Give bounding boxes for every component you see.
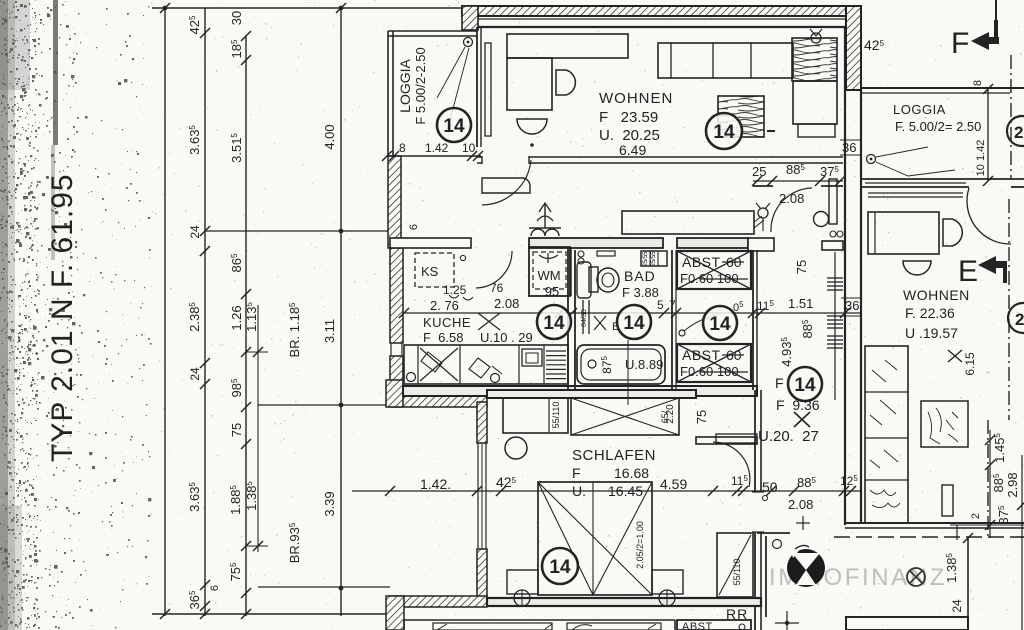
bad shelf <box>597 251 615 256</box>
wohnen1 desk <box>507 34 628 58</box>
svg-text:F: F <box>572 465 581 481</box>
svg-text:2. 76: 2. 76 <box>430 298 459 313</box>
svg-text:F. 22.36: F. 22.36 <box>905 305 955 321</box>
svg-text:3.11: 3.11 <box>322 319 337 343</box>
wohnen1 door jambs <box>482 156 529 164</box>
svg-text:25/55: 25/55 <box>643 251 649 267</box>
exterior wall bottom left (hatched) <box>390 596 487 607</box>
apartment number circle kitchen <box>537 305 571 339</box>
kitchen taps <box>407 373 416 382</box>
hall lower dim line <box>352 490 861 492</box>
stair box bottom right <box>846 617 968 630</box>
svg-text:4.00: 4.00 <box>322 124 337 149</box>
svg-text:55/110: 55/110 <box>732 559 742 586</box>
svg-text:2.20: 2.20 <box>665 404 676 424</box>
svg-text:3.39: 3.39 <box>322 491 337 516</box>
svg-text:U.10 . 29: U.10 . 29 <box>480 330 533 345</box>
svg-text:F: F <box>775 375 784 391</box>
svg-text:2: 2 <box>1014 123 1023 142</box>
door mark cross <box>796 522 810 524</box>
schlafen niche closet <box>716 434 757 443</box>
exterior wall top inner faces <box>477 18 845 20</box>
wohnen1 coffee table (wood texture) <box>718 96 764 137</box>
loggia1 parapet left <box>387 31 389 156</box>
svg-text:1.26: 1.26 <box>229 305 244 330</box>
svg-text:SCHLAFEN: SCHLAFEN <box>572 447 656 464</box>
title text TYP 2.01 N F. 61.95 (rotated) <box>46 173 79 462</box>
svg-text:5: 5 <box>657 298 664 312</box>
separating wall apt1/apt2 <box>844 90 846 525</box>
entrance dims 25 88.5 37.5 <box>753 180 843 182</box>
bad wc <box>589 267 598 292</box>
dimension chain line L3 with labels <box>245 36 247 616</box>
svg-text:ABST: ABST <box>682 254 721 270</box>
svg-text:BR. 1.185: BR. 1.185 <box>287 302 302 358</box>
svg-text:6: 6 <box>408 224 420 230</box>
svg-text:U.20. 27: U.20. 27 <box>758 428 819 445</box>
schlafen stool circle <box>505 437 527 459</box>
svg-text:TYP 2.01 N F. 61.95: TYP 2.01 N F. 61.95 <box>46 173 79 462</box>
svg-text:30: 30 <box>229 11 244 25</box>
svg-text:7: 7 <box>669 298 676 312</box>
svg-text:75: 75 <box>694 410 709 424</box>
kitchen counter <box>404 345 568 384</box>
dimension chain line L1 <box>164 8 166 616</box>
svg-text:1.51: 1.51 <box>788 296 813 311</box>
service row south wall <box>403 386 757 396</box>
svg-text:2.98: 2.98 <box>1005 472 1020 497</box>
svg-text:BAD: BAD <box>624 268 656 284</box>
schlafen chest crossed <box>571 398 679 435</box>
circled 2x wohnen2 (cut) <box>1008 303 1024 333</box>
kitchen east wall <box>567 247 569 396</box>
bottom cross tick <box>775 622 799 624</box>
schlafen bed <box>538 482 652 595</box>
svg-text:24: 24 <box>188 225 202 239</box>
kitchen grill lines <box>546 350 566 352</box>
svg-text:6: 6 <box>209 585 221 591</box>
exterior wall kitchen west lower (hatched) <box>390 356 403 396</box>
svg-text:F. 5.00/2= 2.50: F. 5.00/2= 2.50 <box>895 119 981 134</box>
scan noise band left edge <box>0 0 152 630</box>
wohnen2 door arc <box>967 188 1011 244</box>
left connector lines <box>205 230 390 232</box>
svg-text:14: 14 <box>709 314 731 335</box>
wohnen2 floor lamp <box>942 485 953 516</box>
wohnen1 door leaf <box>482 178 530 193</box>
loggia2 bottom window band <box>861 178 1024 180</box>
svg-text:4.59: 4.59 <box>660 476 687 492</box>
bottom dimension line <box>152 613 390 615</box>
kitchen sink unit crossed <box>420 348 458 381</box>
schlafen west wall pier top (hatched) <box>477 402 487 443</box>
top dimension line <box>152 7 462 9</box>
loggia1 pointer lines <box>437 47 469 120</box>
abst upper storage room crossed <box>677 251 751 289</box>
apartment number circle wohnen1 <box>706 113 742 149</box>
electrical riser symbols <box>827 277 843 279</box>
svg-text:8: 8 <box>399 141 406 155</box>
bad east wall <box>671 250 673 390</box>
apartment number circle hall <box>788 367 822 401</box>
entrance wall with door opening <box>753 185 843 187</box>
svg-text:64/30: 64/30 <box>581 309 588 327</box>
schlafen east wall <box>754 390 756 630</box>
shaft circle <box>814 212 829 227</box>
svg-text:8: 8 <box>972 80 984 86</box>
wohnen1 radiator strip <box>485 43 491 136</box>
svg-text:6.49: 6.49 <box>619 142 646 158</box>
svg-text:10: 10 <box>462 141 476 155</box>
lower apartment row boxes <box>404 619 675 621</box>
svg-text:2: 2 <box>1015 310 1024 329</box>
schlafen east wall door opening <box>752 492 764 532</box>
wohnen1 sofa seats <box>658 43 793 78</box>
wohnen2 desk chair <box>943 219 962 246</box>
dimension chain line L3b with labels <box>257 305 259 552</box>
wohnen2 armchair <box>903 261 931 275</box>
apartment number circle loggia1 <box>437 108 471 142</box>
schlafen door swing arc <box>713 442 750 487</box>
svg-text:LOGGIA: LOGGIA <box>397 58 413 112</box>
bathtub <box>577 345 665 384</box>
exterior wall band below kitchen (hatched) <box>390 396 487 407</box>
exterior wall top-left corner block <box>462 6 478 30</box>
svg-text:F: F <box>951 27 969 60</box>
svg-text:14: 14 <box>549 557 571 578</box>
wohnen2 table scribble <box>921 401 968 447</box>
svg-text:10 1.42: 10 1.42 <box>975 140 987 177</box>
exterior corner block bottom-left (hatched) <box>386 596 404 630</box>
abst east wall <box>752 250 754 390</box>
schlafen nightstand right <box>652 570 683 594</box>
entrance door swing arc <box>771 188 812 232</box>
bad door leaf 64/30 <box>582 300 584 334</box>
apartment number circle bad <box>617 305 651 339</box>
exterior wall kitchen west upper (hatched) <box>390 248 403 343</box>
small door circle <box>763 496 768 501</box>
wohnen1 door swing arc <box>482 160 531 205</box>
svg-text:ABST: ABST <box>682 347 721 363</box>
svg-text:2.08: 2.08 <box>779 191 804 206</box>
svg-text:BR.935: BR.935 <box>287 522 302 563</box>
svg-text:50: 50 <box>762 479 778 495</box>
svg-text:F 23.59: F 23.59 <box>599 109 658 126</box>
circled X symbol <box>907 568 925 586</box>
double circle symbol <box>830 231 836 237</box>
wohnen1 sofa corner (wood texture) <box>792 38 837 81</box>
svg-text:WM: WM <box>537 268 560 283</box>
svg-text:LOGGIA: LOGGIA <box>893 102 946 117</box>
svg-text:25/55: 25/55 <box>651 251 657 267</box>
wohnen1 sofa vertical part <box>793 81 837 124</box>
hall south boundary <box>757 532 790 534</box>
bathtub center line <box>627 340 629 405</box>
svg-text:1.42.: 1.42. <box>420 476 451 492</box>
svg-text:14: 14 <box>713 122 735 143</box>
svg-text:KUCHE: KUCHE <box>423 315 471 330</box>
wohnen1 ceiling lamp <box>811 33 821 43</box>
svg-text:6.15: 6.15 <box>963 352 977 376</box>
wohnen2 south wall <box>845 522 1024 524</box>
wohnen1 armchair (semicircle) <box>517 119 547 134</box>
schlafen niche wall stub <box>696 437 757 444</box>
svg-text:F 6.58: F 6.58 <box>423 330 463 345</box>
svg-text:36: 36 <box>842 140 856 155</box>
wohnen1 south wall <box>477 156 843 158</box>
svg-text:U .19.57: U .19.57 <box>905 325 958 341</box>
wohnen1 west wall <box>476 27 478 147</box>
svg-text:16.45: 16.45 <box>608 483 643 499</box>
loggia1 parapet top <box>388 30 477 32</box>
kitchen door swing arc <box>476 251 512 288</box>
svg-text:F 9.36: F 9.36 <box>776 397 820 413</box>
svg-text:24: 24 <box>188 367 202 381</box>
corridor line vertical <box>967 538 969 630</box>
bad west wall <box>574 250 576 390</box>
wohnen1 side table <box>798 124 835 137</box>
svg-text:F 5.00/2-2.50: F 5.00/2-2.50 <box>413 47 428 124</box>
svg-text:55/110: 55/110 <box>551 402 561 429</box>
wm niche box <box>529 247 570 296</box>
svg-text:2.05/2=1.00: 2.05/2=1.00 <box>635 521 645 569</box>
abst lower storage room crossed <box>677 344 751 382</box>
svg-text:76: 76 <box>490 281 504 295</box>
kitchen hob symbols <box>469 358 502 378</box>
schlafen nightstand left <box>507 570 538 594</box>
svg-text:E: E <box>958 255 978 288</box>
corridor vent symbol <box>531 229 559 236</box>
central dimension line service row <box>404 312 861 314</box>
schlafen west window <box>477 443 479 549</box>
schlafen wardrobe 55/110 top <box>503 398 568 433</box>
apartment number circle abst <box>703 306 737 340</box>
entrance wall lamp <box>758 208 768 218</box>
bad towel circles <box>578 251 584 257</box>
svg-text:2.08: 2.08 <box>788 497 813 512</box>
dash-dot property line mid <box>1008 199 1010 420</box>
dashed corridor line <box>834 536 1024 538</box>
abst door circle <box>679 330 685 336</box>
dash-dot property line top <box>1010 55 1012 178</box>
schlafen west wall pier bottom (hatched) <box>477 549 487 600</box>
watermark logo circle <box>787 549 825 587</box>
svg-text:95: 95 <box>545 284 559 299</box>
svg-text:WOHNEN: WOHNEN <box>599 90 673 107</box>
wohnen2 desk <box>868 212 939 254</box>
corridor closet <box>622 211 754 234</box>
svg-text:36: 36 <box>845 298 859 313</box>
svg-text:F 3.88: F 3.88 <box>622 285 659 300</box>
loggia2 ceiling point + pointers <box>867 155 876 164</box>
bad washbasin <box>577 262 591 298</box>
schlafen south wall <box>487 598 761 606</box>
dash-dot property line bottom <box>987 420 989 538</box>
loggia2 top wall <box>861 87 1024 89</box>
wohnen2 sofa <box>865 346 908 523</box>
right dim line segments <box>989 430 991 538</box>
svg-text:14: 14 <box>543 313 565 334</box>
kitchen west window <box>390 343 392 356</box>
service row north wall <box>390 238 471 248</box>
schlafen north wall <box>487 390 696 398</box>
svg-text:14: 14 <box>623 313 645 334</box>
svg-text:U.: U. <box>572 483 586 499</box>
kitchen oven box <box>522 349 542 366</box>
svg-text:WOHNEN: WOHNEN <box>903 287 970 303</box>
exterior corner block left (hatched) <box>386 380 403 407</box>
wohnen2 radiator strip <box>868 192 963 194</box>
exterior wall left below loggia1 (hatched) <box>388 156 401 248</box>
svg-text:1.42: 1.42 <box>425 141 449 155</box>
circled 2x loggia2 (cut) <box>1007 116 1024 146</box>
wohnen1 desk chair <box>556 70 575 95</box>
svg-text:1.25: 1.25 <box>443 283 467 297</box>
exterior wall top (hatched) <box>462 6 861 16</box>
loggia1 dimension 8 1.42 10 <box>387 155 481 157</box>
shaft column <box>829 179 837 224</box>
bad vent shaft 25/55 <box>641 251 667 266</box>
loggia1 ceiling point symbol <box>464 38 473 47</box>
loggia2 dim line vertical <box>987 89 989 181</box>
wohnen2 sofa cushion texture <box>870 360 900 508</box>
washing machine WM (dashed) <box>533 252 566 289</box>
svg-text:ABST: ABST <box>682 621 713 630</box>
svg-text:75: 75 <box>794 260 809 274</box>
svg-text:14: 14 <box>794 375 816 396</box>
svg-text:25: 25 <box>752 164 766 179</box>
exterior wall right (hatched) <box>846 6 861 90</box>
fridge KS (dashed) <box>415 253 454 287</box>
svg-text:U.8.89: U.8.89 <box>625 357 663 372</box>
dimension chain line L4 with labels <box>340 8 342 616</box>
dimension chain line L2 with labels <box>204 8 206 616</box>
svg-text:14: 14 <box>443 116 465 137</box>
electrical riser line <box>834 252 836 400</box>
lower abst box <box>677 620 751 630</box>
apartment number circle schlafen <box>542 548 578 584</box>
svg-text:24: 24 <box>950 599 964 613</box>
svg-text:KS: KS <box>421 264 439 279</box>
svg-text:2: 2 <box>970 513 982 519</box>
schlafen wardrobe 55/110 right <box>717 533 753 597</box>
svg-text:75: 75 <box>229 423 244 437</box>
svg-text:16.68: 16.68 <box>614 465 649 481</box>
corridor closet end marks <box>754 216 764 228</box>
svg-text:2.08: 2.08 <box>494 296 519 311</box>
